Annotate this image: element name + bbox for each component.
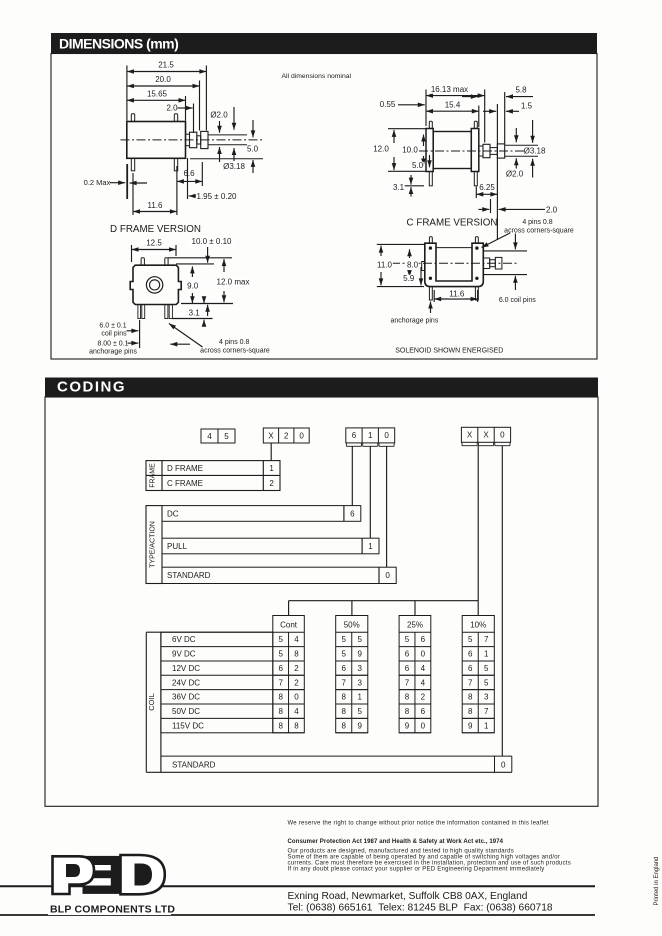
svg-text:8: 8 <box>341 693 346 702</box>
svg-text:10.0: 10.0 <box>402 146 418 155</box>
svg-text:coil pins: coil pins <box>101 330 127 337</box>
svg-text:0: 0 <box>421 650 426 659</box>
svg-text:3: 3 <box>358 678 363 687</box>
svg-text:115V DC: 115V DC <box>172 721 204 730</box>
svg-text:5: 5 <box>358 707 363 716</box>
svg-text:12.5: 12.5 <box>146 239 162 248</box>
svg-text:DC: DC <box>167 509 179 518</box>
svg-text:1: 1 <box>368 542 373 551</box>
svg-text:1: 1 <box>358 693 363 702</box>
svg-text:COIL: COIL <box>147 693 156 711</box>
svg-text:12V DC: 12V DC <box>172 664 200 673</box>
svg-text:TYPE/ACTION: TYPE/ACTION <box>150 521 157 568</box>
svg-text:21.5: 21.5 <box>158 61 174 70</box>
svg-text:3: 3 <box>358 664 363 673</box>
svg-text:7: 7 <box>468 678 473 687</box>
svg-text:4 pins 0.8: 4 pins 0.8 <box>219 339 249 346</box>
svg-text:FRAME: FRAME <box>150 463 157 488</box>
svg-text:0: 0 <box>500 431 505 440</box>
svg-text:8.0: 8.0 <box>407 261 419 270</box>
svg-text:D FRAME: D FRAME <box>167 464 203 473</box>
svg-text:15.65: 15.65 <box>147 90 168 99</box>
svg-text:0: 0 <box>385 571 390 580</box>
svg-text:6: 6 <box>405 650 410 659</box>
svg-text:5.9: 5.9 <box>403 274 415 283</box>
svg-text:CODING: CODING <box>57 379 126 396</box>
svg-text:7: 7 <box>484 707 489 716</box>
svg-text:6.6: 6.6 <box>183 169 195 178</box>
svg-text:9V DC: 9V DC <box>172 650 196 659</box>
svg-text:8: 8 <box>405 707 410 716</box>
svg-text:8: 8 <box>341 707 346 716</box>
svg-text:6: 6 <box>350 509 355 518</box>
svg-text:5: 5 <box>468 635 473 644</box>
svg-text:4: 4 <box>294 635 299 644</box>
svg-text:All dimensions nominal: All dimensions nominal <box>282 73 352 80</box>
svg-text:Exning Road, Newmarket, Suffol: Exning Road, Newmarket, Suffolk CB8 0AX,… <box>288 891 528 902</box>
svg-text:11.6: 11.6 <box>148 201 164 210</box>
svg-text:5: 5 <box>484 664 489 673</box>
svg-text:8: 8 <box>468 693 473 702</box>
svg-text:Ø2.0: Ø2.0 <box>506 170 524 179</box>
svg-text:11.6: 11.6 <box>449 290 465 299</box>
svg-text:1: 1 <box>484 721 489 730</box>
svg-text:0: 0 <box>299 431 304 440</box>
svg-text:Tel: (0638) 665161 Telex: 812: Tel: (0638) 665161 Telex: 81245 BLP Fax:… <box>288 903 553 914</box>
svg-text:across corners-square: across corners-square <box>504 228 574 235</box>
svg-text:5: 5 <box>224 432 229 441</box>
svg-text:6: 6 <box>468 664 473 673</box>
svg-text:Ø3.18: Ø3.18 <box>524 147 546 156</box>
svg-text:5: 5 <box>358 635 363 644</box>
svg-text:2: 2 <box>421 693 426 702</box>
svg-text:4: 4 <box>294 707 299 716</box>
svg-text:5: 5 <box>341 650 346 659</box>
svg-text:7: 7 <box>278 678 283 687</box>
svg-text:STANDARD: STANDARD <box>172 760 216 769</box>
svg-text:6: 6 <box>278 664 283 673</box>
svg-text:SOLENOID SHOWN ENERGISED: SOLENOID SHOWN ENERGISED <box>395 348 503 355</box>
svg-text:8.00 ± 0.1: 8.00 ± 0.1 <box>97 341 128 348</box>
svg-text:15.4: 15.4 <box>445 101 461 110</box>
svg-text:currents. Care must therefore: currents. Care must therefore be exercis… <box>288 861 572 867</box>
svg-text:2: 2 <box>294 664 299 673</box>
svg-text:Some of them are capable of be: Some of them are capable of being operat… <box>288 854 561 860</box>
svg-text:50V DC: 50V DC <box>172 707 200 716</box>
svg-text:3.1: 3.1 <box>393 183 405 192</box>
svg-text:4 pins 0.8: 4 pins 0.8 <box>522 219 552 226</box>
svg-text:1: 1 <box>368 431 373 440</box>
svg-text:5: 5 <box>484 678 489 687</box>
svg-text:50%: 50% <box>344 621 360 630</box>
svg-text:If in any doubt please contact: If in any doubt please contact your supp… <box>288 867 545 873</box>
svg-text:20.0: 20.0 <box>155 75 171 84</box>
svg-text:11.0: 11.0 <box>377 260 393 269</box>
svg-text:6: 6 <box>421 635 426 644</box>
svg-text:Consumer Protection Act 1987 a: Consumer Protection Act 1987 and Health … <box>288 839 504 845</box>
svg-text:7: 7 <box>484 635 489 644</box>
svg-text:7: 7 <box>341 678 346 687</box>
svg-text:9: 9 <box>358 721 363 730</box>
svg-text:5: 5 <box>341 635 346 644</box>
svg-text:Ø3.18: Ø3.18 <box>223 162 245 171</box>
svg-text:X: X <box>483 431 489 440</box>
svg-text:2: 2 <box>294 678 299 687</box>
svg-text:0.2 Max: 0.2 Max <box>84 178 111 187</box>
svg-text:1.95 ± 0.20: 1.95 ± 0.20 <box>197 192 238 201</box>
svg-text:Cont: Cont <box>280 621 298 630</box>
svg-text:4: 4 <box>207 432 212 441</box>
svg-text:8: 8 <box>294 721 299 730</box>
svg-text:6: 6 <box>468 650 473 659</box>
svg-text:9: 9 <box>358 650 363 659</box>
svg-text:9: 9 <box>405 721 410 730</box>
svg-text:12.0 max: 12.0 max <box>217 278 250 287</box>
svg-text:9.0: 9.0 <box>187 282 199 291</box>
svg-text:16.13 max: 16.13 max <box>431 85 468 94</box>
svg-text:6: 6 <box>405 664 410 673</box>
svg-text:C FRAME VERSION: C FRAME VERSION <box>407 218 498 229</box>
svg-text:9: 9 <box>468 721 473 730</box>
svg-text:5.8: 5.8 <box>515 86 527 95</box>
svg-text:STANDARD: STANDARD <box>167 571 211 580</box>
svg-text:6: 6 <box>341 664 346 673</box>
svg-text:8: 8 <box>341 721 346 730</box>
svg-text:7: 7 <box>405 678 410 687</box>
svg-text:3.1: 3.1 <box>189 309 201 318</box>
svg-text:6V DC: 6V DC <box>172 635 196 644</box>
svg-text:24V DC: 24V DC <box>172 678 200 687</box>
svg-text:DIMENSIONS (mm): DIMENSIONS (mm) <box>59 36 178 52</box>
svg-text:1.5: 1.5 <box>521 102 533 111</box>
svg-text:We reserve the right to change: We reserve the right to change without p… <box>288 820 549 826</box>
svg-text:Ø2.0: Ø2.0 <box>210 111 228 120</box>
svg-text:anchorage pins: anchorage pins <box>89 349 137 356</box>
svg-text:2: 2 <box>284 431 289 440</box>
svg-text:8: 8 <box>468 707 473 716</box>
svg-text:0: 0 <box>501 760 506 769</box>
svg-text:C FRAME: C FRAME <box>167 479 203 488</box>
svg-text:0.55: 0.55 <box>380 100 396 109</box>
svg-text:1: 1 <box>269 464 274 473</box>
svg-text:2.0: 2.0 <box>166 104 178 113</box>
svg-text:8: 8 <box>405 693 410 702</box>
svg-text:2: 2 <box>269 479 274 488</box>
svg-text:6: 6 <box>421 707 426 716</box>
svg-text:0: 0 <box>294 693 299 702</box>
svg-text:Printed in England: Printed in England <box>654 856 660 905</box>
svg-text:12.0: 12.0 <box>373 145 389 154</box>
svg-text:across corners-square: across corners-square <box>200 348 270 355</box>
svg-text:6: 6 <box>352 431 357 440</box>
svg-text:10.0 ± 0.10: 10.0 ± 0.10 <box>192 237 233 246</box>
svg-text:8: 8 <box>278 693 283 702</box>
svg-text:8: 8 <box>278 707 283 716</box>
svg-text:5: 5 <box>278 635 283 644</box>
svg-text:3: 3 <box>484 693 489 702</box>
svg-text:5: 5 <box>405 635 410 644</box>
svg-text:anchorage pins: anchorage pins <box>390 318 438 325</box>
svg-text:X: X <box>268 431 274 440</box>
svg-text:2.0: 2.0 <box>546 205 558 214</box>
svg-text:8: 8 <box>278 721 283 730</box>
svg-text:6.25: 6.25 <box>479 183 495 192</box>
svg-text:X: X <box>467 431 473 440</box>
svg-text:Our products are designed, man: Our products are designed, manufactured … <box>288 848 514 854</box>
svg-text:4: 4 <box>421 678 426 687</box>
svg-text:D FRAME VERSION: D FRAME VERSION <box>110 224 201 235</box>
svg-text:6.0 coil pins: 6.0 coil pins <box>499 297 536 304</box>
svg-text:BLP COMPONENTS LTD: BLP COMPONENTS LTD <box>50 904 175 916</box>
svg-text:25%: 25% <box>407 621 423 630</box>
svg-text:5.0: 5.0 <box>247 145 259 154</box>
svg-text:5: 5 <box>278 650 283 659</box>
svg-text:8: 8 <box>294 650 299 659</box>
svg-text:1: 1 <box>484 650 489 659</box>
svg-text:5.0: 5.0 <box>412 161 424 170</box>
svg-text:PULL: PULL <box>167 542 188 551</box>
svg-text:36V DC: 36V DC <box>172 693 200 702</box>
svg-text:6.0 ± 0.1: 6.0 ± 0.1 <box>99 323 126 330</box>
svg-text:0: 0 <box>384 431 389 440</box>
svg-text:10%: 10% <box>470 621 486 630</box>
svg-text:4: 4 <box>421 664 426 673</box>
svg-text:0: 0 <box>421 721 426 730</box>
